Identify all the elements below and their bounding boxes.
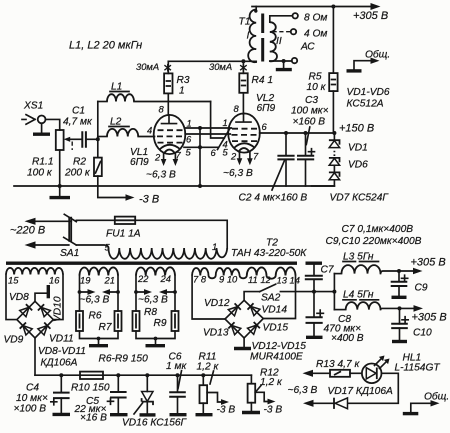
svg-text:~6,3 В: ~6,3 В <box>138 295 168 306</box>
ground (T1 secondary) <box>276 68 292 71</box>
resistor R8 <box>133 311 140 331</box>
svg-text:1,2 к: 1,2 к <box>260 377 283 388</box>
link 8-9 <box>209 276 216 279</box>
wire R13 to HL1 <box>350 372 362 374</box>
zener VD1 <box>329 133 368 154</box>
svg-text:SA1: SA1 <box>60 248 79 259</box>
potentiometer R1.1 <box>27 130 82 179</box>
LED HL1 <box>362 353 440 384</box>
resistor R13 <box>316 359 361 377</box>
svg-text:R8: R8 <box>144 307 157 318</box>
svg-text:10 мк×: 10 мк× <box>16 393 48 404</box>
node VD chain / R5 <box>332 131 336 135</box>
node C2 <box>284 131 288 135</box>
svg-text:КС512А: КС512А <box>347 99 384 110</box>
resistor R5 <box>307 72 338 94</box>
svg-text:R7: R7 <box>99 322 112 333</box>
R6/R7 common to ground <box>80 331 119 339</box>
svg-text:×400 В: ×400 В <box>331 333 364 344</box>
svg-text:21: 21 <box>104 275 115 286</box>
svg-text:30мА: 30мА <box>209 61 232 72</box>
asterisk mark (R3) <box>164 64 171 72</box>
-3V bias rail <box>35 374 251 376</box>
common rail (top section) <box>14 185 334 187</box>
bridge VD8-VD11 <box>4 292 74 346</box>
link 10-11 <box>240 276 247 279</box>
svg-text:30мА: 30мА <box>136 61 159 72</box>
svg-text:SA2: SA2 <box>261 293 281 304</box>
node (R4 tap) <box>241 59 245 63</box>
winding 22-24 leads <box>136 276 175 312</box>
svg-text:ХS1: ХS1 <box>23 101 43 112</box>
svg-text:VD16 КС156Г: VD16 КС156Г <box>122 418 188 429</box>
wire XS1 to R1.1 <box>46 119 60 130</box>
svg-text:10 к: 10 к <box>307 82 327 93</box>
node C3 <box>304 131 308 135</box>
node (cathode junction) <box>198 145 202 149</box>
svg-text:1: 1 <box>179 86 185 97</box>
ground (bridge2) <box>243 338 245 347</box>
svg-text:L-1154GT: L-1154GT <box>395 363 441 374</box>
svg-text:R13 4,7 к: R13 4,7 к <box>316 359 361 370</box>
6.3V arrows (19-21) <box>80 291 119 293</box>
node C9 <box>397 269 401 273</box>
Obshch. (common) output, bottom <box>403 391 449 414</box>
-3V arrow (top section) <box>126 194 135 200</box>
svg-text:100 к: 100 к <box>27 168 53 179</box>
transformer T1 <box>239 7 328 68</box>
secondary II <box>270 22 277 61</box>
tap 8 Ohm <box>270 16 293 22</box>
link 12-13 <box>267 276 276 279</box>
svg-text:R3: R3 <box>177 75 190 86</box>
wire L2 to VL1 pin 4 <box>138 136 154 138</box>
svg-text:VD17 КД106А: VD17 КД106А <box>328 386 393 397</box>
node L3/L4 <box>332 290 336 294</box>
switch SA2 <box>260 284 276 291</box>
core <box>261 14 264 62</box>
svg-text:С9: С9 <box>415 283 428 294</box>
wire L1 to VL2 grid branch <box>134 101 211 103</box>
svg-text:~220 В: ~220 В <box>10 225 45 237</box>
wire R1.1 bottom to rail <box>59 150 61 186</box>
zener VD7 <box>312 172 390 203</box>
L3/L4 feed vertical <box>333 274 335 310</box>
svg-text:VD6: VD6 <box>348 160 368 171</box>
svg-text:-3 В: -3 В <box>139 194 159 206</box>
wire SA1 to T2 primary pin 5 <box>76 245 108 248</box>
bottom tap <box>270 60 292 62</box>
T2 winding 13-14 <box>276 267 296 275</box>
capacitor C4 (electrolytic) <box>14 375 71 414</box>
switch SA1 <box>60 214 79 259</box>
svg-text:15: 15 <box>8 275 19 286</box>
svg-text:+305 В: +305 В <box>353 10 388 22</box>
inductor L1 <box>98 82 134 102</box>
resistor R10 (in rail) <box>71 372 110 394</box>
capacitor C9 (electrolytic) <box>391 271 428 297</box>
T2 winding 7-8 <box>192 268 208 276</box>
~6.3V return arrow <box>303 400 314 407</box>
capacitor C1 <box>63 106 98 148</box>
svg-text:11 12: 11 12 <box>248 274 272 285</box>
svg-text:L1, L2 20 мкГн: L1, L2 20 мкГн <box>69 40 142 52</box>
diode VD17 <box>313 386 393 409</box>
svg-text:FU1 1А: FU1 1А <box>106 229 141 240</box>
node C5 <box>116 373 120 377</box>
vacuum tube VL1 6П9 <box>130 104 192 169</box>
svg-text:Общ.: Общ. <box>424 391 449 403</box>
svg-text:6: 6 <box>186 134 192 145</box>
svg-text:×100 В: ×100 В <box>14 404 47 415</box>
svg-text:+150 В: +150 В <box>339 123 374 135</box>
svg-text:7: 7 <box>176 150 182 161</box>
T2 core <box>6 262 297 265</box>
svg-text:R2: R2 <box>73 157 86 168</box>
zener VD6 <box>329 158 368 172</box>
svg-text:1: 1 <box>187 118 192 129</box>
svg-text:+305 В: +305 В <box>411 257 446 269</box>
resistor R3 <box>164 61 190 96</box>
capacitor C5 (electrolytic) <box>74 375 128 423</box>
node C4 <box>59 373 63 377</box>
svg-text:100 мк×: 100 мк× <box>291 106 329 117</box>
T2 winding 9-10 <box>216 268 240 276</box>
6.3V arrows (22-24) <box>136 291 175 293</box>
svg-text:VD11: VD11 <box>49 334 74 345</box>
T2 winding 11-12 <box>247 267 267 275</box>
svg-text:1 мк: 1 мк <box>166 361 187 372</box>
svg-text:R5: R5 <box>309 72 322 83</box>
svg-text:200 к: 200 к <box>64 168 91 179</box>
+305V rail (top) <box>252 6 371 8</box>
svg-text:VD13: VD13 <box>203 328 229 339</box>
svg-text:4: 4 <box>147 125 152 136</box>
resistor R9 <box>172 311 179 331</box>
svg-text:Т2: Т2 <box>266 238 278 249</box>
svg-text:VD1-VD6: VD1-VD6 <box>347 87 390 98</box>
svg-text:~6,3 В: ~6,3 В <box>80 295 110 306</box>
resistor R6 <box>76 311 83 331</box>
svg-text:R6: R6 <box>89 311 102 322</box>
wire L1 branch down to VL2 pin4 <box>211 102 225 139</box>
wire FU1 to T2 primary pin 1 <box>135 220 227 248</box>
svg-text:-3 В: -3 В <box>217 405 236 416</box>
svg-text:+305 В: +305 В <box>412 312 447 324</box>
heater leads VL1 (pins 2,7) <box>164 154 176 161</box>
svg-text:6П9: 6П9 <box>257 103 276 114</box>
svg-text:С9,С10 220мк×400В: С9,С10 220мк×400В <box>326 236 422 247</box>
svg-text:VD10: VD10 <box>53 296 64 322</box>
svg-text:6П9: 6П9 <box>130 157 149 168</box>
node C6 <box>176 373 180 377</box>
svg-text:С7: С7 <box>321 265 334 276</box>
wire (diagonal to VL2) <box>218 128 231 149</box>
capacitor C2 <box>277 133 294 186</box>
svg-text:8: 8 <box>159 104 165 115</box>
svg-text:7 8: 7 8 <box>193 274 207 285</box>
svg-text:6: 6 <box>211 147 217 158</box>
wire HL1 to VD17 line <box>349 373 399 403</box>
node on rail <box>198 184 202 188</box>
wire node to common rail <box>199 128 201 186</box>
svg-text:VD12: VD12 <box>204 298 230 309</box>
svg-text:×16 В: ×16 В <box>80 413 107 424</box>
node (R5 feed) <box>331 5 335 9</box>
svg-text:С4: С4 <box>26 383 39 394</box>
svg-text:16: 16 <box>49 275 60 286</box>
fuse FU1 <box>76 217 140 240</box>
svg-text:R9: R9 <box>154 318 167 329</box>
capacitor C8 (electrolytic) <box>306 292 364 344</box>
svg-text:5: 5 <box>223 147 229 158</box>
svg-text:×160 В: ×160 В <box>293 117 326 128</box>
zener VD16 <box>122 375 188 428</box>
svg-text:~6,3 В: ~6,3 В <box>288 385 318 396</box>
+305V output (L4) <box>414 305 424 312</box>
node VD16 <box>145 373 149 377</box>
wire VL1 pin5 (cathode) <box>184 146 218 148</box>
vacuum tube VL2 6П9 <box>211 93 276 162</box>
svg-text:R4 1: R4 1 <box>252 75 274 86</box>
svg-text:АС: АС <box>300 42 315 53</box>
connector XS1 (input jack) <box>22 101 45 133</box>
T2 winding 19-21 <box>80 267 118 285</box>
potentiometer R12 <box>242 368 283 416</box>
ground (common rail) <box>58 184 62 188</box>
primary I <box>248 10 256 63</box>
svg-text:С2 4 мк×160 В: С2 4 мк×160 В <box>239 193 308 204</box>
svg-text:С10: С10 <box>413 328 432 339</box>
svg-text:VD9: VD9 <box>4 335 24 346</box>
capacitor C6 <box>166 352 187 415</box>
svg-text:Т1: Т1 <box>239 17 251 28</box>
ground (under XS1) <box>33 132 50 135</box>
wire R3 to VL1 anode (pin 8) <box>167 93 169 115</box>
svg-text:ТАН 43-220-50К: ТАН 43-220-50К <box>231 248 307 259</box>
wire 14 to bridge2 right <box>263 276 295 319</box>
svg-text:24: 24 <box>160 273 171 284</box>
svg-text:5: 5 <box>105 242 111 253</box>
wire R5 to +150V node <box>332 91 334 133</box>
svg-text:С3: С3 <box>305 95 318 106</box>
svg-text:VD14: VD14 <box>262 305 288 316</box>
resistor R7 <box>115 311 122 331</box>
svg-text:7: 7 <box>253 151 259 162</box>
+DC line to filter <box>280 291 334 293</box>
svg-text:С1: С1 <box>72 106 85 117</box>
wire down to R5 <box>332 7 334 74</box>
choke L4 <box>334 290 415 310</box>
inductor L2 <box>98 117 138 137</box>
wire 7 to bridge2 left <box>192 276 225 320</box>
resistor R4 <box>239 61 273 93</box>
top feed rail to T1 primary <box>168 60 256 62</box>
svg-text:VD12-VD15: VD12-VD15 <box>252 341 307 352</box>
T2 winding 22-24 <box>136 267 175 284</box>
svg-text:VD7 КС524Г: VD7 КС524Г <box>330 193 390 204</box>
potentiometer R11 <box>196 352 236 416</box>
svg-text:L4 5Гн: L4 5Гн <box>343 290 374 301</box>
svg-text:R1.1: R1.1 <box>32 157 54 168</box>
svg-text:22: 22 <box>137 273 149 284</box>
mains arrows <box>36 220 71 222</box>
svg-text:9 10: 9 10 <box>219 274 238 285</box>
svg-text:13 14: 13 14 <box>277 275 300 286</box>
choke L3 <box>334 252 415 274</box>
svg-text:~6,3 В: ~6,3 В <box>223 168 253 179</box>
svg-text:1: 1 <box>223 117 228 128</box>
transformer T2 primary (pins 5-1) <box>105 241 228 259</box>
asterisk mark (R4) <box>240 64 247 72</box>
R8/R9 common to ground <box>136 331 175 339</box>
svg-text:6: 6 <box>262 121 268 132</box>
svg-text:8 Ом: 8 Ом <box>304 13 327 24</box>
bridge2 + output wire <box>244 292 260 301</box>
svg-text:VD15: VD15 <box>263 323 289 334</box>
svg-text:VD1: VD1 <box>348 143 368 154</box>
svg-text:4 Ом: 4 Ом <box>304 29 327 40</box>
node (pin1 / screen divider) <box>198 126 202 130</box>
capacitor C3 (electrolytic) <box>291 95 329 186</box>
svg-text:2: 2 <box>230 151 237 162</box>
svg-text:Общ.: Общ. <box>365 49 390 61</box>
capacitor C7 (to chassis) <box>305 263 334 291</box>
winding 19-21 leads <box>80 276 119 312</box>
capacitor plate (bridge snubber) <box>35 293 47 301</box>
svg-text:VD8: VD8 <box>9 292 29 303</box>
svg-text:-3 В: -3 В <box>264 405 283 416</box>
svg-text:С7 0,1мк×400В: С7 0,1мк×400В <box>342 224 414 235</box>
svg-text:II: II <box>276 36 282 47</box>
wire 15 to bridge left <box>6 275 17 320</box>
capacitor C10 (electrolytic) <box>391 308 432 341</box>
wire bridge to -3V rail <box>34 338 36 375</box>
svg-text:2: 2 <box>154 152 161 163</box>
svg-text:19: 19 <box>80 275 91 286</box>
svg-text:R10 150: R10 150 <box>71 383 110 394</box>
svg-text:8: 8 <box>234 103 240 114</box>
wire VL1 pin1 to VL2 pin1 <box>185 127 231 129</box>
Obshch. (common) output, top <box>347 49 391 71</box>
wire R2 to -3V tap <box>98 176 126 197</box>
+150V rail <box>260 132 335 134</box>
resistor R2 <box>64 139 102 178</box>
node A (C1 / L1 / L2 / R2) <box>96 137 100 141</box>
svg-text:I: I <box>247 31 250 42</box>
node C10 <box>398 306 402 310</box>
svg-text:~6,3 В: ~6,3 В <box>146 170 176 181</box>
wire VL1 pin6 to VL2 <box>185 133 230 135</box>
bridge VD12-VD15 <box>203 298 288 339</box>
svg-text:R6-R9 150: R6-R9 150 <box>99 354 149 365</box>
wire R4 to VL2 anode <box>242 93 244 114</box>
wire 16 to bridge right <box>53 275 63 320</box>
svg-text:5: 5 <box>186 147 192 158</box>
svg-text:1,2 к: 1,2 к <box>197 362 220 373</box>
svg-text:VD8-VD11: VD8-VD11 <box>38 346 86 357</box>
phase dot <box>254 9 257 12</box>
tap 4 Ohm (dashed) <box>273 31 291 33</box>
T2 winding 15-16 <box>6 268 63 286</box>
heater leads VL2 (pins 2,7) <box>240 152 250 160</box>
svg-text:КД106А: КД106А <box>41 358 78 369</box>
svg-text:MUR4100E: MUR4100E <box>250 352 303 363</box>
ellipsis dots (VD2-VD5 omitted) <box>333 151 335 156</box>
~6.3V feed arrow (to HL1) <box>303 370 314 377</box>
node C7/C8 <box>312 290 316 294</box>
node R11 <box>201 373 205 377</box>
svg-text:4,7 мк: 4,7 мк <box>63 117 93 128</box>
+305V output (L3) <box>413 268 423 275</box>
